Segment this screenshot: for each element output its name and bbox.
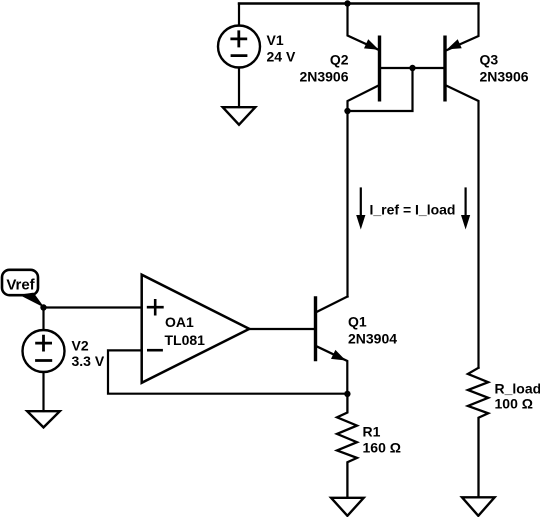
svg-text:100 Ω: 100 Ω: [495, 396, 533, 412]
svg-text:Q1: Q1: [348, 314, 367, 330]
svg-text:Q2: Q2: [330, 52, 349, 68]
svg-text:2N3904: 2N3904: [348, 331, 397, 347]
svg-text:V2: V2: [72, 338, 89, 354]
svg-text:Vref: Vref: [6, 277, 35, 294]
svg-text:TL081: TL081: [165, 332, 206, 348]
svg-text:R_load: R_load: [495, 381, 540, 397]
svg-text:I_ref = I_load: I_ref = I_load: [370, 202, 456, 218]
svg-text:R1: R1: [363, 424, 381, 440]
svg-text:Q3: Q3: [480, 52, 499, 68]
svg-text:24 V: 24 V: [267, 49, 296, 65]
svg-text:160 Ω: 160 Ω: [363, 440, 401, 456]
svg-text:2N3906: 2N3906: [299, 69, 348, 85]
svg-text:V1: V1: [267, 32, 284, 48]
svg-text:OA1: OA1: [165, 314, 194, 330]
svg-text:2N3906: 2N3906: [480, 69, 529, 85]
svg-text:3.3 V: 3.3 V: [72, 353, 105, 369]
